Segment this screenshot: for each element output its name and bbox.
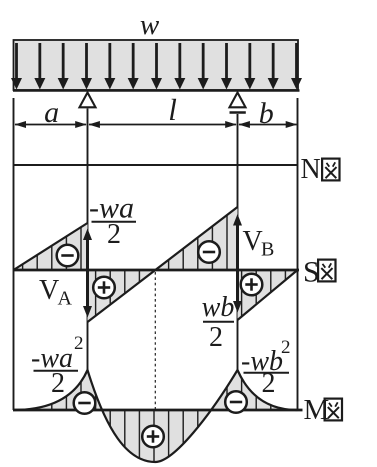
S right hypotenuse [238,270,298,320]
svg-text:A: A [58,288,73,310]
dimension arrow b [239,121,298,128]
S zero baseline [13,269,299,272]
S diagram left negative triangle fill [14,223,88,270]
S diagram mid positive region fill [88,270,156,322]
midspan dashed line [154,272,156,460]
circled minus S left [57,245,79,267]
svg-text:b: b [259,97,274,130]
S diagram right positive triangle fill [238,270,298,320]
svg-text:2: 2 [209,322,223,353]
fraction -wb^2/2 [241,337,291,399]
M diagram curve stroke [14,370,298,462]
svg-text:a: a [44,96,59,129]
distributed load rectangle w [14,40,299,90]
roller underline [230,111,246,113]
vertical grid line at beam right end x=297.5 [297,98,299,410]
fraction -wa/2 [89,192,136,251]
dimension arrow a [15,121,87,128]
circled plus M mid [142,426,164,448]
circled minus M right [225,391,247,413]
svg-text:B: B [261,239,274,261]
label VB [243,226,275,261]
svg-text:2: 2 [262,368,276,399]
svg-text:wb: wb [202,292,235,323]
dimension arrow l [89,121,237,128]
circled plus S mid-left [93,277,115,299]
svg-text:V: V [243,226,263,257]
reaction arrow VA (double headed) [83,229,92,318]
S mid diagonal [88,207,238,322]
vertical grid line at support A x=87.5 [87,109,89,411]
vertical grid line at beam left end x=13.5 [13,98,15,410]
right roller support B [230,93,246,108]
circled minus S mid-right [198,241,220,263]
svg-text:2: 2 [281,337,291,358]
svg-text:w: w [140,9,160,41]
svg-text:2: 2 [51,368,65,399]
circled plus S right [241,274,263,296]
svg-text:V: V [39,275,59,306]
svg-text:2: 2 [74,333,84,354]
S left hypotenuse [14,223,88,270]
fraction -wa^2/2 [31,333,84,399]
M zero baseline [13,409,303,412]
M diagram curve fill [14,370,298,462]
svg-text:N: N [301,154,321,185]
reaction arrow VB (double headed) [233,214,242,313]
left pin support A [80,93,96,108]
N diagram zero line [14,164,298,166]
beam line [13,89,300,92]
label VA [39,275,73,310]
vertical grid line at support B x=237.5 [237,114,239,410]
svg-text:l: l [168,92,177,127]
load arrows (13 downward) [11,43,302,90]
circled minus M left [74,392,96,414]
fraction wb/2 [202,292,235,353]
S diagram mid negative region fill [155,207,237,270]
svg-text:2: 2 [107,219,121,250]
